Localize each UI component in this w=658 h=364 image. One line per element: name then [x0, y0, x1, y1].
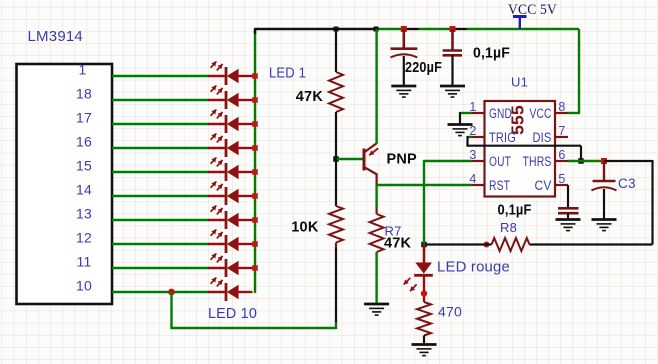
resistor 10K: [329, 206, 343, 243]
wire RST to PNP collector: [377, 184, 472, 186]
LED D6: [208, 181, 253, 205]
capacitor C3 curved plate: [592, 187, 617, 190]
LED D10: [208, 277, 253, 301]
wire LM3914 pin 16 to LED D4: [112, 147, 208, 149]
wire LM3914 pin 13 to LED D7: [112, 219, 208, 221]
junction C220 at rail: [401, 26, 407, 32]
IC LM3914 body: [17, 64, 113, 304]
capacitor CV 0,1uF plates: [558, 207, 579, 210]
ground CV cap: [556, 218, 581, 221]
ground C 220uF: [391, 85, 416, 88]
svg-text:CV: CV: [535, 178, 552, 193]
transistor Q1 collector diagonal: [364, 167, 377, 175]
svg-text:220µF: 220µF: [405, 59, 442, 76]
svg-text:VCC: VCC: [530, 106, 552, 121]
svg-text:R8: R8: [500, 220, 517, 235]
junction PNP base node: [333, 156, 339, 162]
wire LED anode bus (vertical, to VCC rail): [254, 29, 256, 293]
wire VCC rail (green seg 1): [376, 28, 404, 30]
resistor R7 lead: [376, 207, 378, 214]
wire LM3914 pin 1 to LED D1: [112, 75, 208, 77]
svg-text:14: 14: [76, 182, 92, 198]
junction pin 10 node: [168, 289, 175, 296]
wire LM3914 pin 14 to LED D6: [112, 195, 208, 197]
svg-text:7: 7: [558, 124, 565, 138]
ground U1 pin1: [448, 123, 473, 126]
wire 10K bottom riser (green part): [335, 321, 337, 329]
svg-text:DIS: DIS: [533, 130, 552, 145]
wire VCC rail (black segment left): [254, 28, 376, 30]
wire C3 to ground: [603, 189, 605, 219]
wire LM3914 pin 15 to LED D5: [112, 171, 208, 173]
capacitor C 0,1uF lead: [451, 29, 454, 50]
junction anode bus at y=124: [252, 121, 258, 127]
LED rouge lead top: [423, 245, 426, 264]
LED D4: [208, 133, 253, 157]
svg-text:470: 470: [438, 304, 462, 320]
capacitor C3 lead: [603, 161, 605, 180]
junction anode bus at y=148: [252, 145, 258, 151]
wire LM3914 pin 10 to LED D10: [112, 291, 208, 293]
junction LED rouge node: [421, 242, 427, 248]
capacitor C3 top plate: [593, 180, 616, 183]
svg-text:1: 1: [79, 62, 87, 78]
svg-text:10: 10: [76, 278, 92, 294]
capacitor C 220uF curved plate: [391, 54, 418, 57]
capacitor C 0,1uF plates: [443, 49, 462, 52]
U1 pin 8 stub: [555, 112, 568, 114]
transistor Q1 PNP bar: [363, 149, 366, 171]
wire bottom run to 10K: [170, 327, 336, 329]
junction R8 left lead: [484, 242, 490, 248]
wire bottom to R8: [530, 243, 653, 245]
wire TRIG to THRS (seg 1): [468, 136, 472, 138]
wire VCC rail (black seg at C 0,1): [453, 28, 468, 30]
wire pin10 down: [170, 292, 172, 328]
svg-text:VCC 5V: VCC 5V: [508, 2, 557, 18]
wire rail to R 47K: [335, 29, 337, 72]
U1 pin 2 stub: [472, 136, 485, 138]
junction anode bus at y=220: [252, 217, 258, 223]
ground 470: [412, 343, 437, 346]
U1 pin 5 stub: [555, 184, 568, 186]
junction anode bus at y=76: [252, 73, 258, 79]
svg-text:PNP: PNP: [387, 152, 418, 168]
wire OUT: [424, 160, 472, 162]
LED D1: [208, 61, 253, 85]
svg-text:GND: GND: [489, 106, 512, 121]
wire LM3914 pin 12 to LED D8: [112, 243, 208, 245]
svg-text:LED 10: LED 10: [208, 305, 257, 322]
svg-text:16: 16: [76, 134, 92, 150]
resistor R7: [370, 214, 384, 252]
capacitor C 220uF lead: [402, 29, 405, 48]
wire 470 to ground: [423, 336, 425, 345]
junction LED rouge / 470: [421, 290, 427, 296]
wire PNP emitter to rail: [375, 29, 377, 144]
svg-text:13: 13: [76, 206, 92, 222]
power symbol VCC: [513, 15, 527, 18]
wire CV cap to ground: [567, 213, 569, 219]
svg-text:18: 18: [76, 86, 92, 102]
ground C 0,1uF: [440, 85, 465, 88]
wire right edge down: [651, 160, 653, 245]
resistor 47K: [329, 72, 343, 112]
svg-text:0,1µF: 0,1µF: [473, 45, 510, 62]
svg-text:5: 5: [558, 172, 565, 186]
svg-text:LED rouge: LED rouge: [437, 259, 510, 276]
wire LM3914 pin 18 to LED D2: [112, 99, 208, 101]
junction C 0,1uF at rail: [450, 26, 456, 32]
LED D3: [208, 109, 253, 133]
wire LM3914 pin 11 to LED D9: [112, 267, 208, 269]
svg-text:17: 17: [76, 110, 92, 126]
transistor Q1 emitter diagonal: [364, 143, 377, 153]
resistor R8: [492, 238, 530, 251]
LED D5: [208, 157, 253, 181]
wire LM3914 pin 17 to LED D3: [112, 123, 208, 125]
LED rouge (vertical): [415, 263, 432, 274]
svg-text:0,1µF: 0,1µF: [498, 202, 532, 219]
junction 47K at rail: [334, 27, 339, 32]
wire TRIG to THRS (seg 3 down): [580, 146, 582, 161]
wire VCC rail right drop to 555 pin 8: [578, 29, 580, 113]
svg-text:8: 8: [558, 100, 565, 114]
junction PNP emitter at rail: [374, 27, 379, 32]
LED D2: [208, 85, 253, 109]
LED D9: [208, 253, 253, 277]
U1 pin 7 stub: [555, 136, 568, 138]
wire THRS: [568, 160, 604, 162]
wire CV down: [567, 185, 569, 208]
wire PNP collector down: [376, 174, 378, 187]
wire C 220uF to ground: [403, 56, 405, 86]
transistor Q1 emitter arrow: [369, 148, 378, 155]
junction anode bus at y=268: [252, 265, 258, 271]
junction anode bus at y=100: [252, 97, 258, 103]
svg-text:10K: 10K: [291, 220, 319, 236]
svg-text:C3: C3: [618, 176, 636, 191]
svg-text:U1: U1: [511, 75, 528, 90]
wire R7 to ground: [375, 252, 377, 304]
resistor 470: [417, 302, 431, 336]
svg-text:11: 11: [77, 254, 92, 270]
U1 pin 6 stub: [555, 160, 568, 162]
wire R8 to LED rouge node: [424, 243, 492, 245]
wire OUT down to LED rouge: [423, 160, 425, 245]
U1 pin 4 stub: [472, 184, 485, 186]
svg-text:LM3914: LM3914: [28, 28, 84, 45]
U1 pin 1 stub: [472, 112, 485, 114]
wire VCC rail corner at LED bus: [254, 29, 256, 34]
svg-text:THRS: THRS: [523, 154, 552, 169]
U1 pin 3 stub: [472, 160, 485, 162]
svg-text:47K: 47K: [384, 236, 412, 252]
LED rouge lead bottom: [423, 275, 425, 302]
wire THRS to right edge: [604, 160, 653, 162]
ground R7: [364, 303, 389, 306]
wire 47K to PNP base node: [335, 112, 337, 206]
wire PNP base: [337, 158, 363, 160]
svg-text:15: 15: [76, 158, 92, 174]
IC U1 555 body: [485, 101, 556, 197]
svg-text:OUT: OUT: [489, 154, 511, 169]
junction anode bus at y=244: [252, 241, 258, 247]
wire VCC rail (green seg 3): [467, 28, 579, 30]
wire U1 GND: [460, 112, 472, 114]
junction TRIG/THRS: [578, 158, 584, 164]
wire TRIG to THRS (seg 2 across): [466, 145, 581, 147]
ground C3: [592, 218, 617, 221]
LED D7: [208, 205, 253, 229]
svg-text:47K: 47K: [296, 89, 324, 105]
junction anode bus at y=172: [252, 169, 258, 175]
svg-text:RST: RST: [489, 178, 510, 193]
capacitor C 220uF top plate: [391, 47, 418, 50]
wire 10K bottom riser (black part): [335, 248, 337, 323]
junction THRS/C3: [601, 158, 607, 164]
wire VCC rail (black seg at C220): [404, 28, 419, 30]
svg-text:LED 1: LED 1: [269, 65, 306, 82]
svg-text:12: 12: [76, 230, 92, 246]
svg-text:6: 6: [558, 148, 565, 162]
junction anode bus at y=196: [252, 193, 258, 199]
wire C 0,1uF to ground: [451, 55, 453, 86]
LED D8: [208, 229, 253, 253]
wire VCC rail (green seg 2): [419, 28, 453, 30]
svg-text:TRIG: TRIG: [489, 130, 516, 145]
